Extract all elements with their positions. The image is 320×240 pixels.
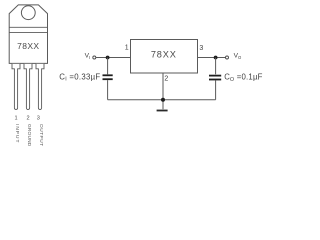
svg-text:2: 2 (26, 116, 29, 122)
capacitor CO bottom plate (209, 79, 221, 81)
svg-text:78XX: 78XX (17, 41, 39, 51)
regulator U1 box (131, 40, 198, 74)
svg-text:3: 3 (199, 45, 203, 52)
svg-text:GROUND: GROUND (26, 124, 32, 147)
svg-text:78XX: 78XX (151, 50, 177, 60)
ground symbol (157, 110, 168, 112)
wire capacitor CI to ground rail (107, 80, 109, 100)
wire regulator pin 2 down to ground (162, 73, 164, 109)
TO-220 leg pin 3 (36, 64, 44, 110)
TO-220 leg pin 2 (24, 64, 32, 110)
output terminal circle (226, 56, 229, 59)
wire output node down to capacitor CO (215, 58, 217, 75)
TO-220 tab line upper (9, 26, 47, 28)
junction ground node (161, 98, 165, 102)
svg-text:OUTPUT: OUTPUT (38, 124, 44, 146)
junction input node (106, 56, 110, 60)
wire input terminal to regulator pin 1 (96, 57, 131, 59)
svg-text:CO =0.1µF: CO =0.1µF (224, 73, 262, 83)
capacitor CO top plate (209, 75, 221, 77)
svg-text:1: 1 (14, 116, 17, 122)
TO-220 package outline (9, 5, 47, 64)
wire regulator pin 3 to output terminal (198, 57, 226, 59)
input terminal circle (93, 56, 96, 59)
TO-220 tab line lower (9, 31, 47, 33)
capacitor CI top plate (103, 74, 113, 76)
svg-text:3: 3 (37, 116, 40, 122)
TO-220 leg pin 1 (12, 64, 20, 110)
ground rail wire (108, 99, 216, 101)
wire input node down to capacitor CI (107, 58, 109, 75)
wire capacitor CO to ground rail (215, 80, 217, 99)
TO-220 mounting hole (21, 6, 35, 20)
junction output node (214, 56, 218, 60)
capacitor CI bottom plate (103, 78, 113, 80)
svg-text:2: 2 (164, 76, 168, 83)
svg-text:1: 1 (125, 45, 129, 52)
svg-text:INPUT: INPUT (14, 124, 20, 142)
